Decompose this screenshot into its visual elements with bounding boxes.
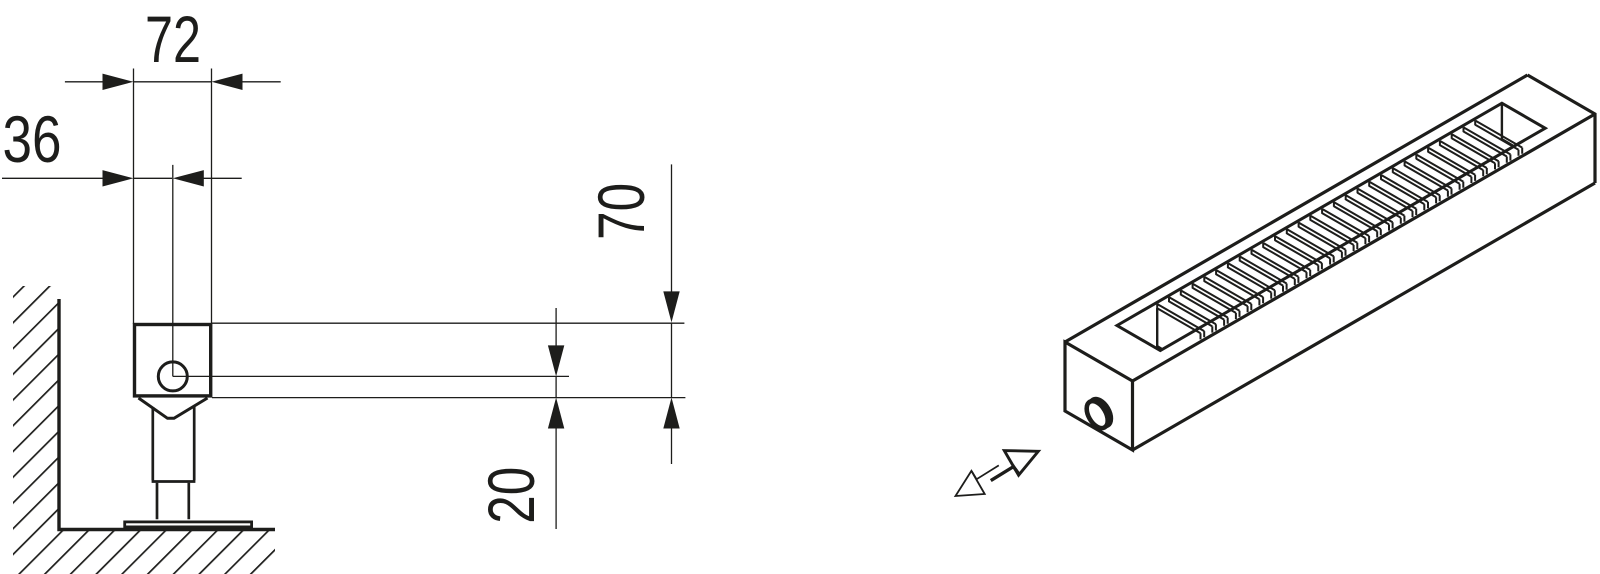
direction arrow thick shaft bbox=[991, 467, 1019, 481]
direction arrow thin shaft bbox=[972, 465, 999, 479]
fin 1 bbox=[1157, 304, 1204, 340]
dimension 20 line bbox=[555, 308, 557, 346]
wall line bbox=[59, 299, 275, 530]
dimension 36 line bbox=[2, 177, 104, 179]
reference line hole axis (y=376.4) bbox=[173, 375, 569, 377]
svg-text:36: 36 bbox=[3, 102, 62, 176]
direction arrow small head bbox=[956, 471, 985, 496]
fin 13 bbox=[1299, 222, 1346, 258]
svg-text:20: 20 bbox=[474, 467, 548, 524]
fin 3 bbox=[1181, 290, 1228, 326]
base plate bbox=[125, 522, 252, 527]
fin 7 bbox=[1228, 263, 1275, 299]
bracket chevron bbox=[139, 398, 208, 418]
svg-text:70: 70 bbox=[584, 183, 658, 240]
fin 4 bbox=[1193, 284, 1240, 320]
long edges of bar bbox=[1065, 75, 1595, 450]
fin 12 bbox=[1287, 229, 1334, 265]
fin 11 bbox=[1275, 236, 1322, 272]
reference line bottom of bracket (y=397.6) bbox=[212, 397, 685, 399]
first fin near face edges bbox=[1157, 308, 1161, 349]
fin 21 bbox=[1393, 168, 1440, 204]
direction arrow large head bbox=[1004, 451, 1038, 476]
reference line top of bracket (y=323.2) bbox=[212, 322, 684, 324]
dimension 70 arrowheads bbox=[663, 291, 679, 322]
bracket stem lower bbox=[157, 483, 189, 520]
dimension 70 line bbox=[671, 164, 673, 292]
extension line left (x=133.5) bbox=[133, 69, 135, 325]
fin 28 bbox=[1475, 120, 1522, 156]
fin 27 bbox=[1464, 127, 1511, 163]
wall and floor hatching bbox=[13, 286, 275, 574]
svg-text:72: 72 bbox=[145, 2, 201, 76]
fin 17 bbox=[1346, 195, 1393, 231]
fin 16 bbox=[1334, 202, 1381, 238]
end face of bar bbox=[1065, 342, 1133, 450]
dimension 20 arrowheads bbox=[548, 345, 564, 376]
dimension 72 arrowheads bbox=[103, 74, 134, 90]
fin 10 bbox=[1263, 243, 1310, 279]
fin 15 bbox=[1322, 209, 1369, 245]
fin 2 bbox=[1169, 297, 1216, 333]
bracket stem upper bbox=[152, 406, 196, 482]
fin 18 bbox=[1358, 188, 1405, 224]
fin 14 bbox=[1310, 216, 1357, 252]
extension line center (x=172.8) bbox=[172, 165, 174, 377]
fin 24 bbox=[1428, 147, 1475, 183]
fin 25 bbox=[1440, 141, 1487, 177]
pipe stub on end face bbox=[1082, 395, 1115, 431]
fin 9 bbox=[1252, 249, 1299, 285]
fin 23 bbox=[1416, 154, 1463, 190]
extension line right (x=211.5) bbox=[211, 69, 213, 325]
fin 6 bbox=[1216, 270, 1263, 306]
dimension 36 arrowheads bbox=[103, 170, 134, 186]
fin 20 bbox=[1381, 175, 1428, 211]
far inner wall of slot bbox=[1502, 103, 1514, 146]
fin 8 bbox=[1240, 256, 1287, 292]
fin 26 bbox=[1452, 134, 1499, 170]
bracket body bbox=[135, 325, 211, 396]
fin 5 bbox=[1204, 277, 1251, 313]
dimension 72 line bbox=[65, 81, 104, 83]
slot opening in top face bbox=[1117, 103, 1545, 350]
mounting hole bbox=[158, 362, 187, 391]
far end edges of bar bbox=[1528, 75, 1596, 183]
fin 19 bbox=[1369, 182, 1416, 218]
fin 22 bbox=[1405, 161, 1452, 197]
